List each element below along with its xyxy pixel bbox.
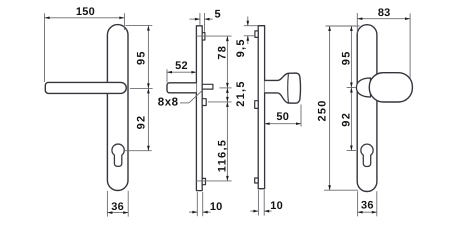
extension line middle lug (fig2) [208,101,232,103]
svg-text:52: 52 [175,60,188,72]
backplate (front view, fig4) [357,25,377,192]
dimension 36 (fig4 bottom) [358,191,377,216]
knob neck bump (fig4) [356,78,370,97]
svg-text:5: 5 [215,9,221,21]
svg-text:9,5: 9,5 [235,38,247,57]
backplate (front view, fig1) [107,25,128,191]
middle screw lug (fig2) [202,99,206,106]
euro keyhole (fig4) [361,144,373,166]
dimension 116,5 (fig2) [226,102,228,181]
euro keyhole (fig1) [112,144,124,166]
svg-text:10: 10 [210,201,223,213]
svg-text:95: 95 [136,50,148,65]
top screw lug (fig2) [202,33,205,41]
knob profile (fig3) [265,73,301,103]
svg-text:83: 83 [378,7,391,19]
dimension 5 (fig2 top) [190,13,213,32]
svg-text:36: 36 [361,200,374,212]
dimension 92 (fig4 left) [347,88,356,151]
dimension 150 (fig1 top) [45,13,125,82]
dimension 52 (fig2) [167,69,196,82]
svg-text:50: 50 [276,111,289,123]
svg-text:250: 250 [317,99,329,121]
lever grip (side view, fig2) [167,83,196,93]
backplate (side view, fig2) [196,26,202,191]
dimension 95 (fig4 left) [347,26,356,88]
svg-text:36: 36 [111,201,124,213]
dimension 10 (fig3 bottom) [250,190,271,216]
svg-text:92: 92 [136,115,148,130]
extension line lever axis (fig2) [219,87,231,89]
knob crease line (fig3) [287,74,290,103]
svg-text:8x8: 8x8 [158,97,179,109]
dimension 78 (fig2) [226,36,228,88]
lever handle grip (fig1) [45,82,126,93]
middle screw lug (fig3) [255,101,259,109]
svg-text:95: 95 [340,50,352,65]
bottom screw lug (fig3) [255,178,259,183]
dimension 9,5 (fig3) [244,17,258,45]
top screw lug (fig3) [255,31,258,38]
leader diagonal (fig2) [189,90,202,103]
dimension 250 (fig3) [324,26,360,190]
dimension 95 (fig1 right) [126,26,153,89]
8x8 spindle (fig2) [202,84,213,89]
dimension 83 (fig4 top) [357,13,410,78]
svg-text:10: 10 [270,200,283,212]
svg-text:150: 150 [76,6,95,18]
dimension 50 (fig3) [265,105,301,127]
dimension 36 (fig1 bottom) [107,191,128,217]
centre line bottom lug (fig2) [196,180,231,182]
dimension 92 (fig1 right) [125,88,152,150]
centre line top lug (fig2) [196,35,231,37]
dimension 10 (fig2 bottom) [189,192,211,216]
bottom screw lug (fig2) [202,178,205,184]
dimension 21,5 (fig2) [226,88,228,102]
svg-text:116,5: 116,5 [217,139,229,172]
svg-text:92: 92 [340,112,352,127]
backplate (side view, fig3) [258,26,264,189]
svg-text:21,5: 21,5 [235,80,247,107]
svg-text:78: 78 [217,45,229,60]
knob head (fig4) [369,73,412,102]
